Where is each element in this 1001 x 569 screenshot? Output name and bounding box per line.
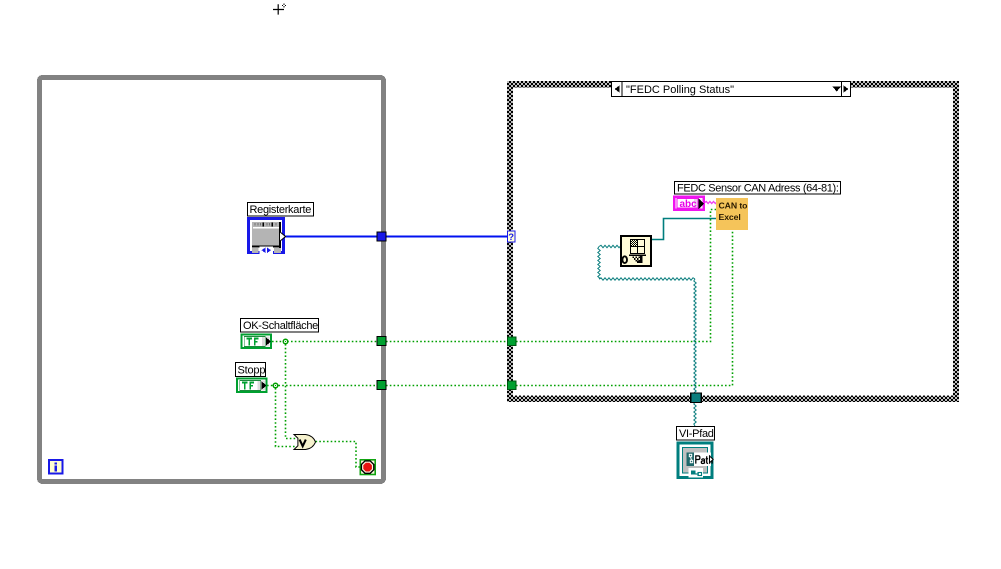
svg-text:CAN to: CAN to <box>719 201 748 211</box>
svg-text:FEDC Sensor CAN Adress (64-81): FEDC Sensor CAN Adress (64-81): <box>677 183 839 195</box>
svg-text:Stopp: Stopp <box>238 365 266 377</box>
svg-text:Registerkarte: Registerkarte <box>250 204 312 216</box>
svg-text:VI-Pfad: VI-Pfad <box>679 428 714 440</box>
svg-text:abc: abc <box>680 199 698 210</box>
svg-text:"FEDC Polling Status": "FEDC Polling Status" <box>626 84 734 96</box>
svg-text:?: ? <box>508 232 514 243</box>
svg-text:OK-Schaltfläche: OK-Schaltfläche <box>243 320 318 332</box>
svg-text:Excel: Excel <box>719 212 741 222</box>
